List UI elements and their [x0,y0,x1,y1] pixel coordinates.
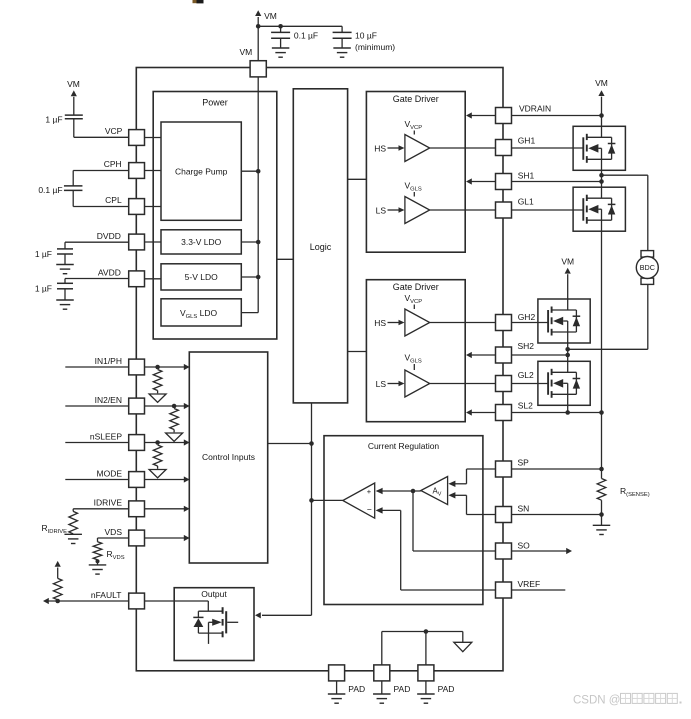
wire SH1 into driver [466,178,496,184]
ground RSENSE [593,525,611,534]
wire nSLEEP external [65,442,128,444]
pin DVDD [97,231,145,250]
capacitor 0.1uF CPH-CPL [38,185,82,195]
wire SL2 to sense [512,410,604,415]
pulldown resistor nSLEEP [149,440,166,478]
svg-text:Charge Pump: Charge Pump [175,166,228,176]
wire nFAULT to output FET [145,601,209,611]
svg-text:nSLEEP: nSLEEP [90,431,122,441]
wire SH2 from pin [512,354,568,356]
wire SH2 into driver [466,352,496,358]
wire HS2 to GH2 [430,322,496,324]
transistor Q4 bridge2 high [538,299,590,344]
svg-text:5-V LDO: 5-V LDO [185,272,218,282]
transistor Q2 bridge1 high [573,126,625,171]
wire AVDD [65,279,129,284]
wire SP to Av [448,469,495,487]
capacitor 0.1uF top [271,26,318,48]
wire CPH to Charge Pump [145,170,162,172]
svg-text:Power: Power [202,98,228,108]
op-amp Av [421,477,448,505]
wire SL1 down [601,220,603,412]
wire VREF external [512,589,566,591]
Output block [174,588,254,661]
wire IN1/PH external [65,366,128,368]
svg-text:LS: LS [376,206,387,216]
pin SH2 [496,341,535,363]
svg-text:PAD: PAD [348,684,365,694]
capacitor 1uF VCP [45,115,82,125]
pin PAD3 [418,665,455,694]
ground AVDD cap [56,300,74,309]
pin CPH [104,159,145,178]
wire VDS to Control Inputs [145,535,190,541]
capacitor 1uF DVDD [35,249,73,265]
pin IN1/PH [95,356,145,375]
pin SN [496,504,530,523]
Gate Driver 2 block [366,280,465,422]
wire VCP to Charge Pump [145,137,162,139]
diode D1 [193,611,203,633]
svg-text:MODE: MODE [97,468,123,478]
svg-text:nFAULT: nFAULT [91,590,122,600]
ground PAD1 [328,681,346,703]
svg-text:PAD: PAD [394,684,411,694]
svg-text:(minimum): (minimum) [355,42,395,52]
wire VGLS LDO tap [241,312,258,314]
wire IN2/EN external [65,405,128,407]
op-amp LS buffer 1 [405,197,430,224]
svg-text:GH2: GH2 [518,312,536,322]
wire VM internal rail [257,77,259,313]
wire SH1 from pin [512,181,602,183]
Control Inputs block [189,352,267,563]
label LS 1 [376,206,405,216]
ground RVDS [89,565,107,574]
Current Regulation block [324,436,483,605]
wire SP to sense [512,413,604,479]
svg-text:VDS: VDS [105,527,123,537]
watermark [573,693,682,706]
wire Logic output bus [311,403,313,615]
node Control Inputs junction [309,441,314,446]
wire GL1 gate [512,209,584,211]
pin IN2/EN [95,395,145,414]
svg-text:IDRIVE: IDRIVE [94,498,123,508]
svg-text:VREF: VREF [518,579,541,589]
ground DVDD cap [56,265,74,274]
pin SH1 [496,170,535,189]
pin GL2 [496,370,535,392]
wire CPH [73,171,128,186]
op-amp HS buffer 2 [405,309,430,336]
pin SO [496,541,531,560]
wire Logic to output gate [0,0,1,1]
wire Charge Pump tap [241,169,260,174]
pin VDS [105,527,145,546]
transistor Q1 output [209,607,239,644]
Power block [153,92,277,340]
wire IN2/EN to Control Inputs [145,403,190,409]
transistor Q5 bridge2 low [538,361,590,406]
node VM top junction [256,24,283,29]
svg-text:HS: HS [374,318,386,328]
ground RIDRIVE [64,534,82,543]
wire DVDD to LDO [145,241,162,243]
svg-text:Control Inputs: Control Inputs [202,452,255,462]
svg-text:CPH: CPH [104,159,122,169]
svg-text:VCP: VCP [105,126,123,136]
svg-text:SP: SP [518,458,530,468]
wire CPL to Charge Pump [145,206,162,208]
svg-text:Output: Output [201,589,227,599]
wire motor branch 1 [602,175,648,251]
svg-text:1 µF: 1 µF [45,115,62,125]
node comparator junction [309,498,314,503]
svg-text:SO: SO [518,541,531,551]
pin GH2 [496,312,536,331]
pin GL1 [496,196,535,218]
pin VREF [496,579,541,598]
svg-text:SH1: SH1 [518,170,535,180]
label HS 1 [374,144,404,154]
svg-text:+: + [367,487,372,496]
label VGLS 2 [405,353,422,371]
svg-text:VM: VM [239,47,252,57]
pin nFAULT [91,590,145,609]
pin IDRIVE [94,498,145,517]
svg-text:Gate Driver: Gate Driver [393,282,439,292]
pin PAD1 [329,665,366,694]
svg-text:AVDD: AVDD [98,268,121,278]
wire GL2 gate [512,383,549,385]
wire nSLEEP to Control Inputs [145,439,190,445]
5-V LDO block [161,264,241,290]
wire MODE external [65,479,128,481]
wire SN to Av [448,492,495,514]
wire 3.3-V LDO tap [241,240,260,245]
resistor RVDS [93,542,124,565]
capacitor 10uF top [333,26,396,52]
svg-text:1 µF: 1 µF [35,249,52,259]
label VVCP 1 [405,119,423,135]
pin VCP [105,126,145,145]
ground cap 10uF top [333,48,351,57]
svg-text:DVDD: DVDD [97,231,121,241]
wire to Output block [255,612,312,618]
wire Power to Logic [277,258,294,260]
svg-text:VM: VM [561,256,574,266]
svg-text:0.1 µF: 0.1 µF [38,185,62,195]
svg-text:1 µF: 1 µF [35,284,52,294]
svg-text:LS: LS [376,379,387,389]
VM supply arrow bridge2 [561,256,574,299]
wire HS1 to GH1 [430,147,496,149]
wire Logic to Gate Driver 1 [348,178,367,180]
Charge Pump block [161,122,241,220]
wire SH2 node [565,332,570,361]
svg-text:0.1 µF: 0.1 µF [294,31,318,41]
wire VREF to comparator [376,507,496,590]
label HS 2 [374,318,404,328]
Logic block [293,89,347,403]
VM supply arrow top [255,10,277,26]
pin PAD2 [374,665,411,694]
wire VDRAIN into driver [466,112,496,118]
capacitor 1uF AVDD [35,283,73,300]
wire LS2 to GL2 [430,383,496,385]
wire SN to sense [512,500,604,525]
wire Logic to Gate Driver 2 [348,351,367,353]
svg-text:SH2: SH2 [518,341,535,351]
ground PAD3 [417,681,435,703]
svg-text:PAD: PAD [438,684,455,694]
wire PAD ground rail [382,629,463,665]
wire IN1/PH to Control Inputs [145,364,190,370]
svg-text:SN: SN [518,504,530,514]
wire motor branch 2 [568,284,648,349]
label VVCP 2 [405,293,423,309]
pin VM [239,47,266,77]
pin CPL [105,195,144,214]
3.3-V LDO block [161,230,241,254]
svg-text:Gate Driver: Gate Driver [393,94,439,104]
pin SL2 [496,401,534,421]
pulldown resistor IN2/EN [166,404,183,442]
svg-text:BDC: BDC [640,263,655,272]
svg-text:VM: VM [264,11,277,21]
svg-text:3.3-V LDO: 3.3-V LDO [181,237,222,247]
svg-text:HS: HS [374,144,386,154]
svg-text:10 µF: 10 µF [355,31,377,41]
svg-text:SL2: SL2 [518,401,533,411]
top-left cropped caption fragment [193,0,204,3]
label VGLS 1 [405,181,422,197]
pin SP [496,458,530,477]
svg-text:VM: VM [67,79,80,89]
wire nFAULT external [43,598,129,604]
wire IDRIVE to Control Inputs [145,506,190,512]
wire Av to SO [413,491,496,551]
wire VM pin stem [257,26,259,60]
wire VCP [74,119,129,138]
wire SL2 into driver [466,409,496,415]
op-amp HS buffer 1 [405,135,430,162]
transistor Q3 bridge1 low [573,187,625,232]
pin VDRAIN [496,104,552,124]
svg-text:VM: VM [595,78,608,88]
pullup resistor nFAULT [53,561,62,600]
VM supply arrow left [67,79,80,115]
wire 5-V LDO tap [241,275,260,280]
wire SO out [512,548,573,554]
wire IDRIVE external [73,509,128,512]
svg-text:Current Regulation: Current Regulation [368,441,440,451]
resistor RSENSE [597,479,650,501]
svg-text:GL1: GL1 [518,196,534,206]
ground PAD2 [373,681,391,703]
motor BDC [636,251,658,285]
wire SH1 node [599,159,604,187]
pulldown resistor IN1/PH [149,365,166,403]
chip boundary [136,68,503,671]
pin MODE [97,468,145,487]
wire AVDD to LDO [145,278,162,280]
wire LS1 to GL1 [430,209,496,211]
comparator U1 [343,483,375,518]
wire GH1 gate [512,147,584,149]
resistor RIDRIVE [42,511,78,535]
output FET rails [198,611,222,633]
svg-text:GH1: GH1 [518,136,536,146]
svg-text:CPL: CPL [105,195,122,205]
label LS 2 [376,379,405,389]
svg-text:IN1/PH: IN1/PH [95,356,122,366]
wire CPL [73,190,128,206]
pin nSLEEP [90,431,145,450]
wire VM to caps [258,25,342,27]
svg-text:VDRAIN: VDRAIN [519,104,551,114]
pin GH1 [496,136,536,156]
wire VDS external [98,538,129,542]
Gate Driver 1 block [366,92,465,253]
wire SL2 node [565,394,570,415]
wire GH2 gate [512,322,549,324]
VGLS LDO block [161,299,241,326]
svg-text:CSDN @: CSDN @ [573,695,620,707]
svg-text:−: − [367,505,372,515]
ground logic symbol [454,632,472,652]
wire Control Inputs to node [268,443,312,445]
svg-text:Logic: Logic [310,242,332,252]
svg-text:GL2: GL2 [518,370,534,380]
VM supply arrow bridge1 [595,78,608,115]
svg-text:IN2/EN: IN2/EN [95,395,122,405]
wire DVDD [65,242,129,249]
ground cap 0.1uF top [272,48,290,57]
op-amp LS buffer 2 [405,370,430,397]
wire comparator out [312,499,343,501]
pin AVDD [98,268,145,287]
wire Av out to comparator [376,488,421,494]
wire MODE to Control Inputs [145,476,190,482]
wire VDRAIN to VM [512,113,604,126]
